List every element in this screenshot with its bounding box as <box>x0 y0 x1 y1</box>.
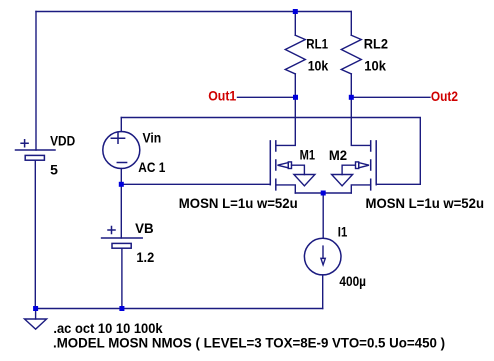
svg-text:M1: M1 <box>300 147 316 163</box>
svg-text:RL1: RL1 <box>306 35 328 51</box>
drain lead <box>351 97 370 145</box>
wire VB bottom <box>121 248 123 308</box>
bulk wire <box>292 165 305 174</box>
svg-text:AC 1: AC 1 <box>138 159 165 175</box>
transistor M1 <box>270 97 315 193</box>
svg-text:VDD: VDD <box>50 133 75 149</box>
junction source node <box>321 191 326 196</box>
junction VB ground <box>119 306 124 311</box>
bulk arrow <box>278 163 289 168</box>
gate bar <box>375 141 377 185</box>
wire VDD bottom to ground <box>34 160 36 308</box>
svg-text:10k: 10k <box>364 58 386 74</box>
wire node to VB <box>120 184 122 238</box>
wire left rail VDD top <box>35 12 37 151</box>
channel segments <box>370 141 372 190</box>
svg-text:Vin: Vin <box>143 130 162 146</box>
svg-text:.MODEL MOSN NMOS ( LEVEL=3 TOX: .MODEL MOSN NMOS ( LEVEL=3 TOX=8E-9 VTO=… <box>53 334 445 350</box>
junction Out1 <box>293 95 298 100</box>
drain lead <box>277 97 296 145</box>
wire I1 bottom <box>322 275 324 309</box>
battery VB <box>102 227 143 249</box>
battery VDD <box>16 140 56 160</box>
bulk arrow <box>359 163 369 168</box>
transistor M2 <box>332 97 377 193</box>
bulk triangle <box>332 175 353 186</box>
svg-text:5: 5 <box>50 162 58 178</box>
wire top rail <box>36 11 351 13</box>
channel segments <box>275 141 277 190</box>
svg-text:Out2: Out2 <box>431 88 458 104</box>
source lead <box>351 185 370 193</box>
junction Out2 <box>349 95 354 100</box>
junction ground left <box>33 306 38 311</box>
wire Vin top rail to M2 gate <box>121 118 420 185</box>
junction Vin VB gate <box>119 182 124 187</box>
junction top RL1 <box>293 9 298 14</box>
svg-text:Out1: Out1 <box>208 88 236 104</box>
wire Out2 <box>351 96 430 98</box>
bulk triangle <box>294 175 315 186</box>
voltage source Vin <box>103 132 140 169</box>
wire bottom ground rail <box>36 308 323 310</box>
wire I1 top <box>322 193 324 238</box>
resistor RL2 <box>341 12 361 98</box>
svg-text:MOSN L=1u w=52u: MOSN L=1u w=52u <box>179 195 298 211</box>
ground <box>25 309 47 330</box>
source lead <box>277 185 296 193</box>
svg-text:M2: M2 <box>329 147 347 163</box>
bulk wire <box>342 165 355 174</box>
svg-text:RL2: RL2 <box>364 35 388 51</box>
svg-text:MOSN L=1u w=52u: MOSN L=1u w=52u <box>366 195 485 211</box>
svg-text:1.2: 1.2 <box>136 249 154 265</box>
wire Vin bottom <box>120 169 122 185</box>
wire Vin top <box>120 118 122 132</box>
svg-text:I1: I1 <box>338 224 348 240</box>
gate bar <box>269 141 271 185</box>
svg-text:10k: 10k <box>308 58 329 74</box>
resistor RL1 <box>285 12 305 98</box>
svg-text:400µ: 400µ <box>339 273 366 289</box>
wire Out1 <box>238 96 296 98</box>
svg-text:VB: VB <box>135 220 154 236</box>
wire source node rail <box>295 192 351 194</box>
current source I1 <box>304 238 341 275</box>
wire M1 gate rail <box>121 183 270 185</box>
